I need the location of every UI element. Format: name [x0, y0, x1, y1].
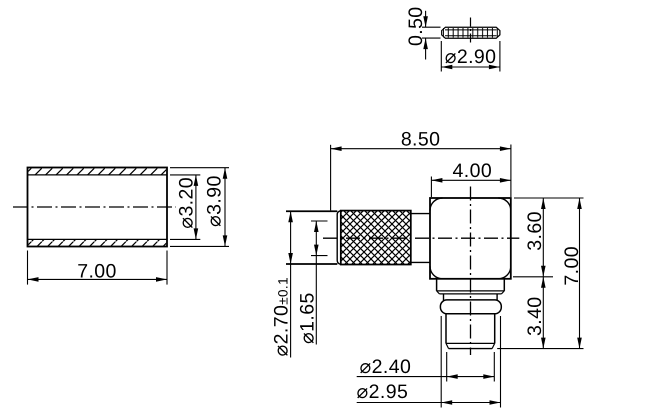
collar A bottom line — [437, 290, 505, 292]
dim ext bottom — [497, 348, 583, 350]
dim d2.95 arrow right — [490, 400, 501, 405]
horizontal center line — [323, 237, 519, 239]
hatch top wall — [28, 168, 167, 176]
dim 3.40 arrow up — [541, 277, 546, 288]
o-ring barrel — [440, 300, 501, 314]
collar A left — [436, 279, 438, 291]
cable tube top line — [286, 210, 337, 212]
washer inner line bottom — [445, 35, 497, 37]
dim d3.90 ext bottom — [170, 245, 229, 247]
dim d1.65 tick bottom — [311, 255, 328, 257]
dim 3.40 line — [542, 277, 544, 349]
body block — [430, 198, 511, 279]
washer outline — [442, 27, 500, 38]
stem right — [494, 314, 496, 344]
dim 0.50 ext bottom — [422, 37, 441, 39]
dim d2.95 ext left — [440, 316, 442, 408]
dim 8.50 ext right / 4.00 shared — [510, 145, 512, 198]
dim 4.00 arrow right — [500, 178, 511, 183]
dim 7.00 right arrow up — [577, 198, 582, 209]
dim 4.00 arrow left — [431, 178, 442, 183]
dim 4.00 ext left — [430, 177, 432, 198]
svg-text:3.60: 3.60 — [524, 211, 546, 251]
dim d2.40 arrow right — [483, 374, 494, 379]
collar A chamfer right — [502, 291, 505, 294]
vertical center line — [470, 187, 472, 356]
dim d1.65 arrow down — [314, 245, 319, 256]
dim d1.65 arrow up — [314, 221, 319, 232]
collar A chamfer left — [437, 291, 440, 294]
dim d2.90 arrow left — [441, 65, 452, 70]
dim 7.00 ext line left — [27, 251, 29, 285]
neck top line — [411, 213, 430, 215]
dim 3.60 3.40 ext top — [514, 197, 584, 199]
dim 0.50 upper line — [425, 11, 427, 27]
stem chamfer left — [446, 343, 449, 348]
neck bottom line — [411, 261, 430, 263]
dim 4.00 line — [431, 179, 511, 181]
dim 7.00 arrow left — [28, 277, 39, 282]
dim d3.20 arrow up — [194, 175, 199, 186]
dim d3.90 arrow up — [223, 168, 228, 179]
dim 7.00 ext line right — [166, 251, 168, 285]
taper collar — [337, 211, 341, 265]
stem chamfer line — [446, 342, 495, 344]
tube center line — [13, 206, 176, 208]
dim d2.70 arrow down — [288, 253, 293, 264]
dim d2.90 ext right — [499, 41, 501, 72]
dim d2.90 line — [441, 66, 500, 68]
dim 3.60 line — [542, 198, 544, 277]
stem chamfer right — [492, 343, 495, 348]
dim d1.65 tick top — [311, 220, 328, 222]
body corner arc TR — [498, 198, 511, 211]
dim 8.50 ext left — [330, 145, 332, 211]
dim d3.20 ext top — [170, 174, 200, 176]
dim d2.90 ext left — [440, 41, 442, 72]
tube inner wall line top — [28, 174, 168, 176]
dim d2.40 arrow left — [447, 374, 458, 379]
dim d2.70 line — [290, 211, 292, 357]
body corner arc TL — [430, 198, 443, 211]
body corner arc BR — [498, 266, 511, 279]
svg-text:⌀2.90: ⌀2.90 — [445, 46, 497, 68]
dim 8.50 line — [331, 148, 511, 150]
washer inner line top — [445, 29, 497, 31]
dim 0.50 ext top — [422, 26, 441, 28]
svg-text:⌀3.90: ⌀3.90 — [204, 175, 226, 227]
collar B right — [496, 294, 498, 303]
dim d2.95 ext right — [500, 316, 502, 408]
svg-text:7.00: 7.00 — [77, 261, 117, 283]
dim 3.60 3.40 ext mid — [513, 276, 553, 278]
dim 8.50 arrow right — [500, 146, 511, 151]
dim d2.40 line — [357, 376, 495, 378]
collar A chamfer bottom line — [439, 293, 501, 295]
dim 0.50 lower line — [425, 38, 427, 59]
dim d2.70 arrow up — [288, 211, 293, 222]
svg-text:0.50: 0.50 — [405, 6, 427, 46]
dim d3.90 line — [224, 168, 226, 247]
dim d3.20 ext bottom — [170, 238, 200, 240]
svg-text:4.00: 4.00 — [453, 160, 493, 182]
dim 0.50 lower arrow — [423, 38, 428, 49]
dim d2.95 line — [357, 402, 501, 404]
dim 3.60 arrow down — [541, 266, 546, 277]
dim d3.90 ext top — [170, 167, 229, 169]
dim 7.00 arrow right — [156, 277, 167, 282]
svg-text:8.50: 8.50 — [401, 128, 441, 150]
cable tube bottom line — [286, 263, 337, 265]
svg-text:⌀2.95: ⌀2.95 — [357, 381, 409, 403]
dim 3.60 arrow up — [541, 198, 546, 209]
dim d1.65 line — [315, 221, 317, 345]
washer center line — [470, 18, 472, 45]
dim 8.50 arrow left — [331, 146, 342, 151]
svg-text:3.40: 3.40 — [524, 296, 546, 336]
svg-text:⌀3.20: ⌀3.20 — [175, 177, 197, 229]
knurl body — [341, 211, 411, 265]
dim 7.00 right line — [579, 198, 581, 349]
collar B left — [443, 294, 445, 303]
svg-text:⌀2.40: ⌀2.40 — [360, 356, 412, 378]
dim d3.20 arrow down — [194, 228, 199, 239]
hatch bottom wall — [28, 240, 167, 247]
dim 0.50 upper arrow — [423, 16, 428, 27]
dim d2.95 arrow left — [441, 400, 452, 405]
dim 7.00 line — [28, 278, 168, 280]
stem left — [445, 314, 447, 344]
body corner arc BL — [430, 266, 443, 279]
stem bottom line — [449, 348, 493, 350]
collar A right — [503, 279, 505, 291]
dim d2.90 arrow right — [489, 65, 500, 70]
dim d2.40 ext left — [446, 352, 448, 382]
dim d2.40 ext right — [493, 352, 495, 382]
svg-text:7.00: 7.00 — [561, 246, 583, 286]
dim d3.20 line — [195, 175, 197, 240]
dim d3.90 arrow down — [223, 235, 228, 246]
washer hatch — [443, 28, 499, 38]
svg-text:⌀1.65: ⌀1.65 — [297, 292, 319, 344]
tube inner wall line bottom — [28, 238, 168, 240]
dim 3.40 arrow down — [541, 338, 546, 349]
tube outer rectangle — [28, 168, 168, 247]
dim 7.00 right arrow down — [577, 338, 582, 349]
